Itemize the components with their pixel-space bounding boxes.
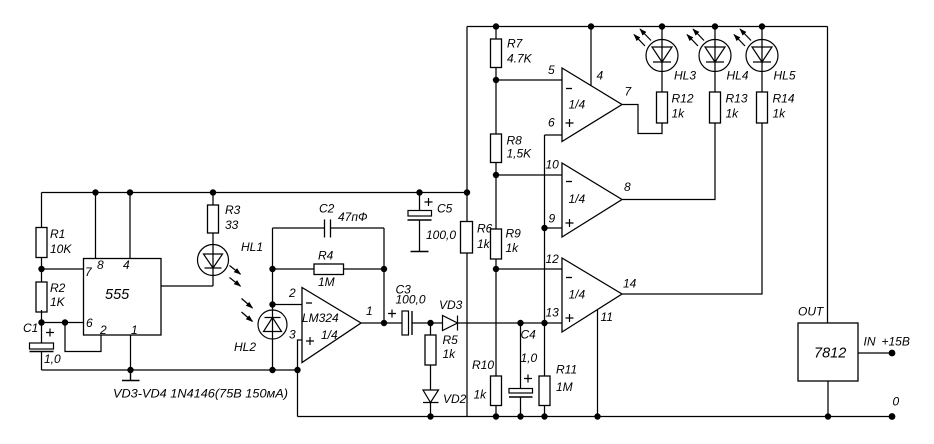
node pin6/pin2 junction xyxy=(62,319,68,325)
node R11 on rail xyxy=(541,413,547,419)
HL3 light arrows xyxy=(640,29,651,41)
wire pin 5 xyxy=(496,79,562,81)
capacitor C5 xyxy=(419,193,421,252)
svg-text:1k: 1k xyxy=(443,347,457,361)
node pin4 on bus xyxy=(588,23,594,29)
wire hysteresis line x544.5 xyxy=(545,135,563,376)
svg-text:7812: 7812 xyxy=(814,346,846,362)
node pin9 junction xyxy=(541,225,547,231)
svg-text:13: 13 xyxy=(546,306,560,320)
HL1 light arrows xyxy=(230,266,241,275)
resistor R14 xyxy=(757,92,768,123)
LED HL3 xyxy=(646,40,678,72)
node pin6 junction left xyxy=(38,319,44,325)
node IN terminal xyxy=(889,350,896,357)
node pin8 on rail xyxy=(92,189,98,195)
svg-text:C4: C4 xyxy=(521,328,537,342)
node 7812 on rail xyxy=(825,413,831,419)
node 0 terminal xyxy=(889,413,896,420)
wire R1 to R2 xyxy=(41,258,43,283)
node R3 on rail xyxy=(210,189,216,195)
svg-text:7: 7 xyxy=(625,85,633,99)
svg-text:OUT: OUT xyxy=(798,305,825,319)
node C4 on rail xyxy=(517,413,523,419)
wire 7812 input xyxy=(858,352,892,354)
wire R6 vertical line xyxy=(466,27,468,417)
svg-text:1k: 1k xyxy=(477,237,491,251)
wire bottom ground rail xyxy=(298,416,893,418)
capacitor C1 xyxy=(30,343,54,349)
node pin11 on rail xyxy=(594,413,600,419)
HL2 light arrows xyxy=(242,299,253,309)
resistor R4 xyxy=(273,268,385,270)
wire C3 to VD3 xyxy=(412,322,443,324)
wire +V rail left xyxy=(42,192,468,194)
svg-text:1k: 1k xyxy=(506,241,520,255)
svg-text:10K: 10K xyxy=(50,242,72,256)
node R4 right xyxy=(381,266,387,272)
regulator U3 7812 xyxy=(798,323,858,381)
node R7 top on bus xyxy=(493,23,499,29)
svg-text:R12: R12 xyxy=(672,92,694,106)
svg-text:HL1: HL1 xyxy=(241,240,263,254)
node pin12 junction xyxy=(493,266,499,272)
wire pin 1 down xyxy=(130,335,132,370)
svg-text:1/4: 1/4 xyxy=(321,328,338,342)
wire bottom-left bus xyxy=(42,369,298,371)
node pin2 junction xyxy=(269,301,275,307)
svg-text:VD2: VD2 xyxy=(443,392,467,406)
svg-text:4: 4 xyxy=(597,69,604,83)
diode VD3 xyxy=(443,316,458,331)
svg-text:VD3: VD3 xyxy=(439,298,463,312)
svg-text:R13: R13 xyxy=(726,92,748,106)
svg-text:1/4: 1/4 xyxy=(569,192,586,206)
wire pin 7 of 555 xyxy=(42,268,84,270)
resistor R3 xyxy=(208,205,219,233)
LED HL4 xyxy=(699,40,731,72)
wire feedback left vertical xyxy=(272,228,274,370)
svg-text:R8: R8 xyxy=(507,134,523,148)
resistor R9 xyxy=(491,229,502,259)
node output junction xyxy=(381,320,387,326)
svg-text:6: 6 xyxy=(548,116,555,130)
svg-text:8: 8 xyxy=(624,180,631,194)
capacitor C2 xyxy=(273,220,385,238)
svg-text:R9: R9 xyxy=(506,227,522,241)
wire divider chain x496 xyxy=(495,27,497,417)
wire R3 to output through HL1 xyxy=(212,233,214,286)
svg-text:4: 4 xyxy=(123,258,130,272)
wire HL5 chain xyxy=(761,27,763,93)
svg-text:R11: R11 xyxy=(556,363,577,377)
svg-text:4.7K: 4.7K xyxy=(507,52,533,66)
wire comparator3 output to R14 xyxy=(622,123,762,294)
svg-text:R10: R10 xyxy=(472,358,494,372)
resistor R6 xyxy=(461,222,473,254)
svg-text:1: 1 xyxy=(131,323,138,337)
op-amp U2.4 comparator 3 xyxy=(562,258,622,332)
node pin7 junction xyxy=(38,266,44,272)
ground symbol xyxy=(122,370,140,381)
wire signal to pin13 xyxy=(458,322,563,324)
svg-text:12: 12 xyxy=(546,252,560,266)
svg-text:HL5: HL5 xyxy=(774,69,796,83)
resistor R2 xyxy=(36,282,47,312)
wire pin 8 xyxy=(95,193,97,259)
svg-text:IN+15В: IN+15В xyxy=(864,335,910,349)
wire comparator1 output to R12 xyxy=(622,105,662,134)
wire pin 12 xyxy=(496,268,562,270)
wire pin 2 jog xyxy=(65,323,101,352)
wire op-amp minus input xyxy=(273,304,303,306)
wire top bus xyxy=(467,26,828,28)
node pin1 on bus xyxy=(127,367,133,373)
svg-text:2: 2 xyxy=(288,286,296,300)
wire HL4 chain xyxy=(714,27,716,93)
resistor R10 xyxy=(491,376,502,406)
svg-text:R14: R14 xyxy=(773,92,795,106)
node junction rail to vertical R6 line xyxy=(464,189,470,195)
svg-text:HL4: HL4 xyxy=(727,69,749,83)
wire right edge down to 7812 xyxy=(827,27,829,324)
capacitor C4 xyxy=(520,323,522,417)
svg-text:100,0: 100,0 xyxy=(426,228,456,242)
svg-text:1/4: 1/4 xyxy=(569,288,586,302)
svg-text:R3: R3 xyxy=(225,203,241,217)
node HL5 on bus xyxy=(759,23,765,29)
svg-text:HL3: HL3 xyxy=(674,69,696,83)
wire VD2 to rail xyxy=(430,403,432,417)
IC 555 U1 xyxy=(84,259,162,336)
wire R2 to C1 xyxy=(41,310,43,343)
node pin5 junction xyxy=(493,77,499,83)
svg-text:R1: R1 xyxy=(50,227,65,241)
svg-text:C5: C5 xyxy=(437,202,453,216)
node R5/VD3 junction xyxy=(427,320,433,326)
resistor R13 xyxy=(710,92,721,123)
node R11/pin13 junction xyxy=(541,320,547,326)
svg-text:9: 9 xyxy=(549,212,556,226)
svg-text:7: 7 xyxy=(85,265,93,279)
node R4 left xyxy=(269,266,275,272)
node VD2 on rail xyxy=(427,413,433,419)
node C4 junction xyxy=(517,320,523,326)
svg-text:11: 11 xyxy=(601,310,613,324)
svg-text:LM324: LM324 xyxy=(302,311,339,325)
capacitor C3 xyxy=(388,310,396,318)
svg-text:VD3-VD4 1N4146(75В 150мА): VD3-VD4 1N4146(75В 150мА) xyxy=(113,387,288,401)
wire pin 4 xyxy=(129,193,131,259)
svg-text:C1: C1 xyxy=(23,321,38,335)
svg-text:1k: 1k xyxy=(773,107,787,121)
wire pin 9 xyxy=(545,227,563,229)
wire feedback right vertical xyxy=(383,228,385,323)
svg-text:R4: R4 xyxy=(318,249,334,263)
wire left drop to R1 xyxy=(41,193,43,228)
node junction C5 on rail xyxy=(416,189,422,195)
node HL3 on bus xyxy=(659,23,665,29)
wire op-amp plus input xyxy=(298,340,303,417)
svg-text:1,0: 1,0 xyxy=(44,352,61,366)
node HL2 bottom on bus xyxy=(269,367,275,373)
svg-text:1k: 1k xyxy=(672,107,686,121)
wire 555 output pin3 xyxy=(161,285,213,287)
wire 7812 to ground rail xyxy=(827,381,829,417)
resistor R5 xyxy=(430,323,432,390)
svg-text:33: 33 xyxy=(225,218,239,232)
photodiode HL2 xyxy=(258,310,287,339)
svg-text:1K: 1K xyxy=(50,295,66,309)
svg-text:HL2: HL2 xyxy=(234,340,256,354)
LED HL5 xyxy=(746,40,778,72)
svg-text:555: 555 xyxy=(105,287,130,303)
svg-text:2: 2 xyxy=(99,323,107,337)
resistor R1 xyxy=(36,228,47,258)
wire HL3 chain xyxy=(661,27,663,93)
svg-text:5: 5 xyxy=(548,63,555,77)
svg-text:R7: R7 xyxy=(507,37,524,51)
svg-text:1/4: 1/4 xyxy=(569,98,586,112)
svg-text:1M: 1M xyxy=(556,380,573,394)
wire C1 to bottom bus xyxy=(41,352,43,371)
op-amp U2.3 comparator 2 xyxy=(562,163,622,237)
svg-text:R2: R2 xyxy=(50,281,66,295)
svg-text:6: 6 xyxy=(86,316,93,330)
resistor R11 xyxy=(539,376,550,406)
op-amp U2.1 LM324 xyxy=(302,288,361,363)
node pin10 junction xyxy=(493,172,499,178)
resistor R12 xyxy=(657,92,668,123)
svg-text:1k: 1k xyxy=(474,388,488,402)
svg-text:1M: 1M xyxy=(318,275,335,289)
svg-text:10: 10 xyxy=(546,158,560,172)
svg-text:0: 0 xyxy=(893,395,900,409)
svg-text:1k: 1k xyxy=(726,107,740,121)
svg-text:3: 3 xyxy=(289,328,296,342)
HL5 light arrows xyxy=(740,29,751,41)
svg-text:14: 14 xyxy=(623,277,637,291)
node pin4 on rail xyxy=(127,189,133,195)
diode VD2 xyxy=(423,390,439,403)
HL4 light arrows xyxy=(693,29,704,41)
node R10 on rail xyxy=(493,413,499,419)
wire pin 6 of 555 xyxy=(42,322,84,324)
svg-text:8: 8 xyxy=(97,258,104,272)
wire R3 top stub xyxy=(212,193,214,206)
svg-text:47пФ: 47пФ xyxy=(338,210,368,224)
resistor R7 xyxy=(491,39,502,68)
LED HL1 xyxy=(198,245,229,276)
node HL4 on bus xyxy=(712,23,718,29)
wire op-amp output xyxy=(361,322,402,324)
wire pin 11 to ground rail xyxy=(597,309,599,416)
svg-text:R5: R5 xyxy=(443,333,459,347)
svg-text:100,0: 100,0 xyxy=(396,293,426,307)
wire comparator2 output to R13 xyxy=(622,123,715,200)
op-amp U2.2 comparator 1 xyxy=(562,68,622,142)
wire pin 4 supply xyxy=(590,27,592,86)
resistor R8 xyxy=(491,134,502,163)
wire pin 10 xyxy=(496,174,562,176)
wire R11 bottom xyxy=(544,406,546,417)
svg-text:C2: C2 xyxy=(319,202,335,216)
svg-text:1,0: 1,0 xyxy=(521,351,538,365)
svg-text:1: 1 xyxy=(366,304,373,318)
svg-text:1,5K: 1,5K xyxy=(507,147,533,161)
node plus input on bus xyxy=(294,367,300,373)
